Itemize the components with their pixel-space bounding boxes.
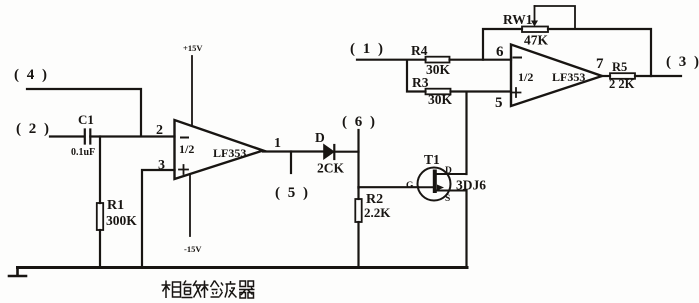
- value 47K: [524, 33, 549, 48]
- svg-text:30K: 30K: [428, 92, 453, 107]
- label T1: [424, 152, 440, 167]
- svg-text:2CK: 2CK: [317, 161, 344, 176]
- capacitor C1: [85, 130, 91, 144]
- svg-text:LF353: LF353: [213, 146, 246, 160]
- value 2.2K R5: [609, 77, 635, 91]
- node (2) terminal label: [16, 121, 51, 137]
- wire U1 output to diode: [263, 150, 324, 152]
- svg-text:3: 3: [158, 158, 165, 173]
- resistor R3: [426, 89, 512, 95]
- wire drain up to R3 node: [465, 92, 467, 174]
- wire from (1) to R4/R3 junction: [357, 60, 426, 92]
- value 30K R3: [428, 92, 453, 107]
- svg-text:( 6 ): ( 6 ): [342, 114, 377, 130]
- svg-text:LF353: LF353: [552, 70, 585, 84]
- transistor T1 (3DJ6 JFET): [418, 168, 467, 201]
- label RW1: [503, 12, 533, 27]
- 敏: [182, 281, 193, 298]
- U1 text 1/2: [179, 142, 194, 156]
- svg-text:S: S: [445, 194, 450, 204]
- op-amp U1 (1/2 LF353): [175, 120, 264, 179]
- svg-text:5: 5: [495, 95, 503, 111]
- svg-text:RW1: RW1: [503, 12, 533, 27]
- wire from (2) to C1: [50, 135, 84, 137]
- U2 text 1/2: [518, 70, 533, 84]
- wire C1 to op-amp pin 2: [90, 135, 174, 137]
- U2 pin 5 number: [495, 95, 503, 111]
- label (3): [666, 54, 699, 70]
- svg-text:R1: R1: [107, 198, 124, 213]
- label -15V: [184, 244, 202, 254]
- wire gate: [359, 186, 419, 188]
- node (5) stub: [290, 152, 292, 174]
- svg-text:R3: R3: [412, 75, 429, 90]
- svg-text:3DJ6: 3DJ6: [456, 178, 486, 193]
- resistor R4: [426, 57, 512, 63]
- label R1: [107, 198, 124, 213]
- node (1) terminal label: [350, 41, 385, 57]
- svg-text:C1: C1: [78, 112, 94, 127]
- svg-text:( 5 ): ( 5 ): [275, 185, 310, 201]
- resistor R5: [610, 73, 681, 79]
- U1 -15V supply stub: [189, 174, 191, 236]
- wire diode to node 6: [334, 151, 358, 153]
- 器: [239, 281, 255, 298]
- label +15V: [183, 43, 203, 53]
- wire U2 output to R5: [602, 75, 610, 77]
- 检: [200, 281, 209, 299]
- U1 text LF353: [213, 146, 246, 160]
- label R4: [411, 43, 428, 58]
- label R3: [412, 75, 429, 90]
- label D pin: [445, 166, 452, 176]
- svg-text:2.2K: 2.2K: [364, 205, 391, 220]
- U2 pin 6 number: [496, 44, 504, 60]
- svg-text:0.1uF: 0.1uF: [71, 147, 95, 158]
- U2 text LF353: [552, 70, 585, 84]
- U1 pin 1 number: [274, 136, 281, 151]
- U1 pin 3 number: [158, 158, 165, 173]
- svg-text:R5: R5: [612, 60, 627, 74]
- label R2: [366, 192, 383, 207]
- label C1: [78, 112, 94, 127]
- resistor R1: [97, 137, 103, 268]
- diode D 2CK: [324, 145, 334, 159]
- svg-text:+15V: +15V: [183, 43, 203, 53]
- label (5): [275, 185, 310, 201]
- label (6): [342, 114, 377, 130]
- label S pin: [445, 194, 450, 204]
- value 2CK: [317, 161, 344, 176]
- U1 +15V supply stub: [191, 56, 193, 126]
- value 30K R4: [426, 62, 451, 77]
- svg-text:2 2K: 2 2K: [609, 77, 635, 91]
- U1 minus input mark: [181, 137, 188, 139]
- svg-text:( 2 ): ( 2 ): [16, 121, 51, 137]
- svg-text:300K: 300K: [106, 213, 137, 228]
- node (6) vertical wire: [357, 130, 359, 188]
- svg-text:D: D: [445, 166, 452, 176]
- value 3DJ6: [456, 178, 486, 193]
- op-amp U2 (1/2 LF353): [511, 45, 602, 107]
- wire pin6 node up to RW1 left: [483, 29, 522, 60]
- label R5: [612, 60, 627, 74]
- U1 plus input mark: [179, 165, 188, 174]
- U2 plus input mark: [512, 88, 521, 97]
- svg-text:G: G: [406, 181, 414, 191]
- potentiometer RW1: [522, 6, 575, 32]
- svg-text:-15V: -15V: [184, 244, 202, 254]
- wire from (4) to pin2 node: [27, 89, 141, 136]
- svg-text:D: D: [315, 130, 325, 145]
- label D: [315, 130, 325, 145]
- U1 pin 2 number: [156, 123, 163, 138]
- U2 pin 7 number: [596, 56, 604, 72]
- svg-text:6: 6: [496, 44, 504, 60]
- wire pin3 to ground rail: [142, 170, 175, 268]
- svg-text:( 1 ): ( 1 ): [350, 41, 385, 57]
- svg-text:1/2: 1/2: [179, 142, 194, 156]
- svg-text:( 4 ): ( 4 ): [14, 67, 49, 83]
- svg-text:( 3 ): ( 3 ): [666, 54, 699, 70]
- svg-text:1/2: 1/2: [518, 70, 533, 84]
- svg-text:30K: 30K: [426, 62, 451, 77]
- svg-text:47K: 47K: [524, 33, 549, 48]
- wire RW1 right to feedback corner: [548, 29, 651, 76]
- svg-text:1: 1: [274, 136, 281, 151]
- svg-text:T1: T1: [424, 152, 440, 167]
- wire source down to rail: [465, 191, 467, 268]
- node (4) terminal label: [14, 67, 49, 83]
- value 2.2K: [364, 205, 391, 220]
- 波: [220, 283, 224, 297]
- caption 相敏检波器 drawn as strokes: [162, 281, 255, 299]
- U2 minus input mark: [514, 57, 522, 59]
- resistor R2: [355, 187, 361, 267]
- 相: [162, 281, 171, 299]
- svg-text:R4: R4: [411, 43, 428, 58]
- svg-text:2: 2: [156, 123, 163, 138]
- label G pin: [406, 181, 414, 191]
- value 0.1uF: [71, 147, 95, 158]
- ground rail: [9, 268, 467, 277]
- value 300K: [106, 213, 137, 228]
- svg-text:7: 7: [596, 56, 604, 72]
